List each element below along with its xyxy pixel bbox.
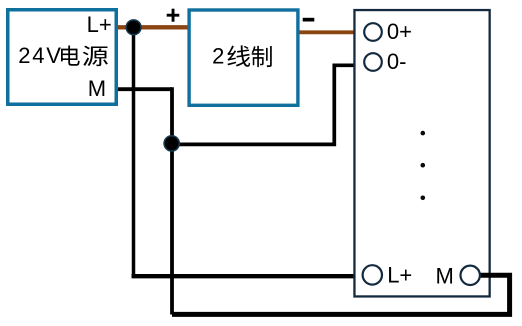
svg-text:2: 2 xyxy=(212,43,224,68)
svg-text:M: M xyxy=(88,76,106,101)
svg-text:L+: L+ xyxy=(87,12,112,37)
svg-text:0+: 0+ xyxy=(387,19,412,44)
svg-text:M: M xyxy=(436,263,454,288)
svg-text:0-: 0- xyxy=(387,49,407,74)
svg-text:24V: 24V xyxy=(18,43,63,68)
svg-text:L+: L+ xyxy=(387,262,412,287)
